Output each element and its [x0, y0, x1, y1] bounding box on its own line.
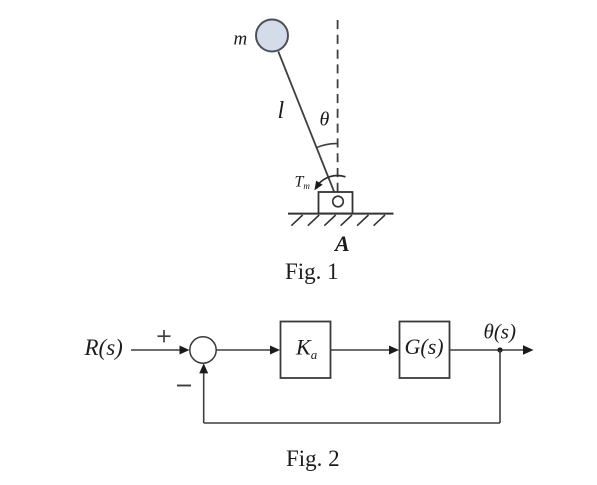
svg-text:A: A — [333, 231, 350, 256]
summing junction — [190, 337, 216, 363]
torque arc Tm — [318, 176, 346, 186]
block Ka — [281, 322, 331, 379]
pendulum rod — [278, 52, 336, 199]
base block — [319, 192, 353, 214]
svg-text:θ: θ — [320, 109, 330, 131]
arrowhead into Gs — [389, 346, 399, 355]
wire summing to Ka — [216, 349, 271, 351]
output wire — [450, 349, 525, 351]
svg-text:l: l — [278, 98, 285, 124]
wire Ka to Gs — [331, 349, 391, 351]
feedback arrowhead — [199, 363, 208, 373]
feedback wire up — [203, 372, 205, 423]
output arrowhead — [523, 345, 534, 354]
dashed vertical reference line — [337, 20, 339, 197]
feedback wire bottom — [204, 422, 500, 424]
input wire — [131, 349, 181, 351]
svg-text:m: m — [234, 29, 248, 50]
input arrowhead — [180, 346, 190, 355]
block Gs — [400, 322, 450, 379]
plus sign — [158, 330, 171, 342]
node dot — [497, 347, 502, 352]
svg-text:R(s): R(s) — [84, 335, 123, 360]
mass ball m — [256, 20, 288, 52]
svg-text:θ(s): θ(s) — [484, 320, 516, 344]
torque arrowhead — [314, 181, 322, 191]
arrowhead into Ka — [270, 346, 280, 355]
angle arc — [316, 144, 338, 148]
svg-text:Fig. 2: Fig. 2 — [286, 446, 340, 471]
svg-text:Fig. 1: Fig. 1 — [285, 259, 339, 284]
ground line — [288, 213, 394, 215]
svg-text:G(s): G(s) — [405, 334, 444, 359]
ground hatching — [291, 215, 385, 226]
minus sign — [177, 385, 191, 387]
feedback wire down — [499, 350, 501, 423]
pivot circle — [333, 196, 344, 207]
